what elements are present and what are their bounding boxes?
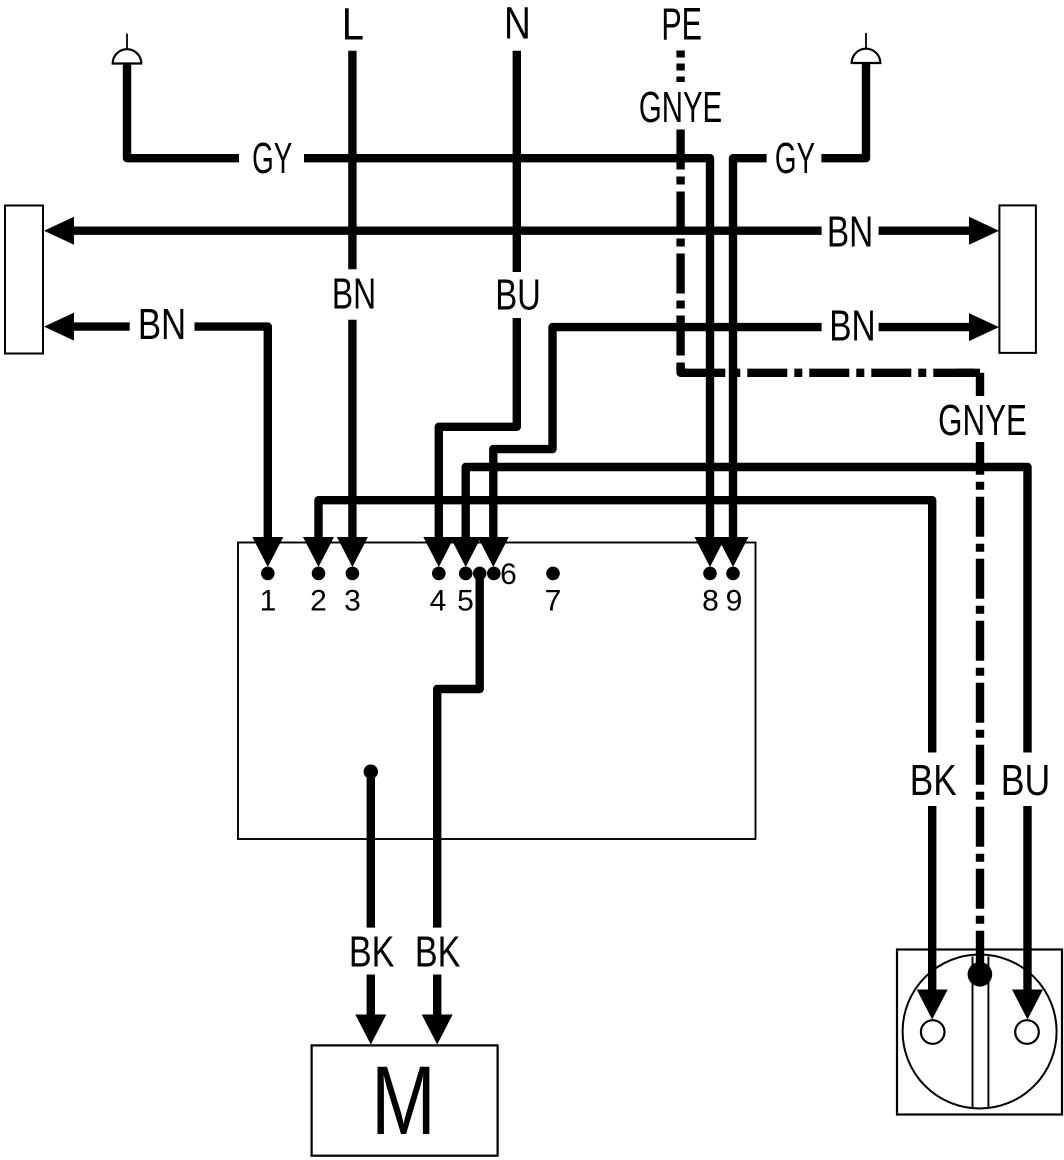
- wire BK long: pin 2 up, corner, across to right, down to label: [319, 500, 933, 752]
- socket PE pin dot: [968, 962, 993, 987]
- wire BU right: below label down to socket arrow: [1023, 806, 1031, 991]
- wire BN lower-left: from label to corner, down to pin 1: [195, 327, 268, 540]
- wire N/BU lower segment with elbow to pin 4: [439, 318, 517, 540]
- arrowhead left into left connector (BN top): [44, 217, 74, 245]
- wire BN top shaft left part: [74, 226, 822, 234]
- svg-text:2: 2: [310, 585, 327, 618]
- svg-text:BK: BK: [349, 929, 394, 977]
- pin dot 8: [703, 567, 717, 581]
- motor box: [312, 1045, 498, 1155]
- svg-text:9: 9: [726, 585, 743, 618]
- arrowhead down motor right BK: [422, 1015, 453, 1045]
- svg-text:BK: BK: [910, 757, 957, 805]
- wire BN top shaft right part: [879, 226, 969, 234]
- wire GNYE dash-dot: vertical from label, elbow right: [681, 130, 980, 373]
- pin dot 6: [487, 567, 501, 581]
- pin dot 2: [312, 567, 326, 581]
- pin dot 4: [432, 567, 446, 581]
- wire N supply vertical upper segment: [513, 51, 521, 272]
- pin dot 3: [346, 567, 360, 581]
- pin dot 9: [726, 567, 740, 581]
- svg-text:BN: BN: [332, 271, 376, 319]
- relay terminal box: [238, 543, 756, 840]
- arrowhead down pin 3: [337, 537, 368, 567]
- wire GY left: antenna stem, elbow, segment to label: [127, 64, 239, 159]
- svg-text:BU: BU: [1001, 757, 1051, 805]
- wire GY right: antenna stem, elbow, segment to label: [821, 64, 866, 159]
- wire L supply vertical upper segment: [348, 51, 356, 269]
- svg-text:GY: GY: [252, 134, 292, 183]
- svg-text:4: 4: [430, 585, 447, 618]
- arrowhead down socket BU: [1012, 990, 1043, 1020]
- svg-text:8: 8: [702, 585, 719, 618]
- svg-text:GY: GY: [775, 134, 815, 183]
- arrowhead down pin 6: [478, 537, 509, 567]
- svg-text:1: 1: [260, 585, 277, 618]
- socket hole right: [1015, 1020, 1039, 1044]
- svg-text:GNYE: GNYE: [639, 82, 722, 131]
- arrowhead down pin 4: [423, 537, 454, 567]
- wire BK motor-right: below label to motor arrow: [433, 975, 441, 1016]
- junction dot inside relay box: [364, 765, 378, 779]
- antenna left: dome: [113, 49, 142, 63]
- svg-text:7: 7: [545, 585, 562, 618]
- svg-text:BU: BU: [495, 271, 541, 320]
- svg-text:BK: BK: [415, 929, 460, 977]
- wire GNYE dash-dot elbow piece at left corner: [681, 366, 688, 373]
- wire GY right: segment from label to corner, down to pin 9: [733, 158, 767, 540]
- svg-text:L: L: [342, 0, 364, 50]
- arrowhead down pin 8: [695, 537, 726, 567]
- socket hole left: [921, 1020, 945, 1044]
- wire GNYE dash-dot dash into right corner: [958, 369, 980, 377]
- arrowhead right into right connector (BN top): [969, 217, 999, 245]
- svg-text:N: N: [504, 0, 531, 48]
- junction dot left of pin 6: [473, 567, 487, 581]
- wire BK right: below label down to socket arrow: [928, 806, 936, 991]
- pin dot 7: [546, 567, 560, 581]
- wire BK motor-left: from junction dot down to label: [367, 772, 375, 928]
- wire PE short dashed lead: [676, 51, 684, 83]
- wire BN lower-right: pin 6 up, jog, corner to label: [493, 327, 821, 540]
- svg-text:3: 3: [344, 585, 361, 618]
- socket earth channel right line: [987, 957, 989, 1108]
- wire BK motor-right: from pin 6 dot down, jog, down to label: [437, 573, 480, 927]
- svg-text:BN: BN: [829, 302, 875, 350]
- arrowhead down pin 9: [718, 537, 749, 567]
- arrowhead down motor left BK: [355, 1015, 386, 1045]
- wire GY left: segment from label to corner, down to pin 8: [304, 158, 710, 540]
- wire GNYE dash-dot right vertical down to socket: [976, 373, 984, 970]
- svg-text:BN: BN: [138, 300, 186, 349]
- svg-text:PE: PE: [661, 0, 702, 50]
- antenna left: thin top stem: [126, 34, 128, 50]
- arrowhead left into left connector (BN lower): [44, 313, 74, 341]
- arrowhead down socket BK: [917, 990, 948, 1020]
- left connector rectangle: [5, 206, 43, 354]
- antenna right: dome: [852, 49, 881, 63]
- pin dot 5: [459, 567, 473, 581]
- arrowhead down pin 2: [303, 537, 334, 567]
- arrowhead down pin 1: [252, 537, 283, 567]
- antenna right: thin top stem: [865, 33, 867, 49]
- wire L/BN vertical lower segment to pin 3: [348, 320, 356, 540]
- svg-text:M: M: [371, 1046, 436, 1155]
- socket circle: [903, 955, 1057, 1109]
- pin dot 1: [261, 567, 275, 581]
- arrowhead right into right connector (BN lower): [969, 313, 999, 341]
- socket earth channel left line: [972, 957, 974, 1108]
- arrowhead down pin 5: [450, 537, 481, 567]
- right connector rectangle: [999, 205, 1036, 353]
- svg-text:GNYE: GNYE: [938, 397, 1027, 445]
- wire BU long: pin 5 up, corner, across to right, down to label: [466, 467, 1028, 753]
- svg-text:5: 5: [457, 585, 474, 618]
- svg-text:6: 6: [500, 558, 517, 591]
- wire BN lower-right: from label to right arrow: [879, 323, 969, 331]
- wire BK motor-left: below label to motor arrow: [367, 975, 375, 1016]
- socket outer square: [897, 950, 1062, 1115]
- svg-text:BN: BN: [827, 208, 873, 256]
- white backing for right GNYE label: [955, 396, 1007, 442]
- wire BN lower-left: segment from arrow to label: [74, 322, 130, 330]
